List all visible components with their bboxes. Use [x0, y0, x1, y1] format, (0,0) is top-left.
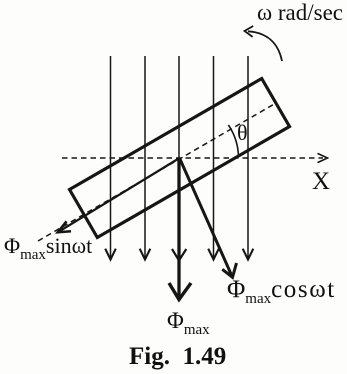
phi-max bold arrow shaft	[177, 158, 180, 298]
label X	[312, 168, 330, 196]
X axis dashed line	[62, 157, 323, 159]
label phi-max sin-omega-t	[4, 233, 92, 259]
phi-max-cos arrow shaft	[180, 158, 233, 277]
field line B5 arrowhead	[243, 249, 254, 260]
angle theta arc	[228, 125, 238, 155]
omega rotation curved arrow	[248, 31, 282, 61]
coil axis dashed line	[38, 103, 276, 241]
field line B1 arrowhead	[105, 249, 116, 260]
field line B2 arrowhead	[140, 249, 151, 260]
label omega rad/sec	[257, 0, 343, 26]
field line B3	[178, 56, 180, 258]
phi-max-sin arrow shaft	[58, 158, 180, 232]
phi-max bold arrowhead	[169, 283, 191, 300]
field line B4 arrowhead	[208, 249, 219, 260]
field line B2	[144, 56, 146, 258]
phi-max-cos arrowhead	[222, 263, 236, 277]
caption Fig. 1.49	[129, 343, 226, 371]
field line B4	[213, 56, 215, 258]
field line B3 arrowhead	[172, 249, 186, 261]
label theta	[237, 120, 248, 146]
field line B5	[247, 56, 249, 258]
field line B1	[110, 56, 112, 258]
label phi-max cos-omega-t	[227, 276, 336, 304]
label phi-max	[167, 308, 210, 334]
phi-max-sin arrowhead	[58, 221, 71, 232]
X axis arrowhead	[318, 153, 328, 162]
omega curved arrowhead	[245, 26, 254, 37]
coil rectangle	[70, 79, 290, 238]
